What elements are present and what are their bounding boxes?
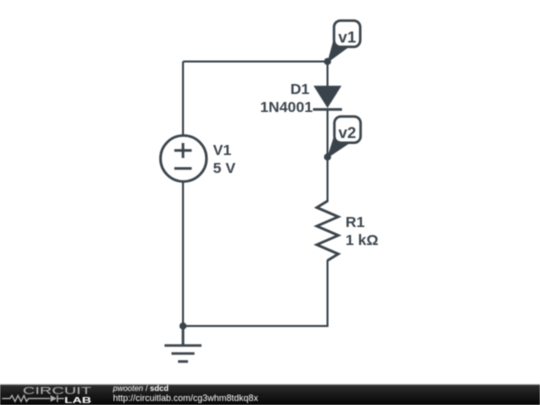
wire: top horizontal from V1 branch to node v1 (183, 61, 328, 63)
wire: right vertical from resistor bottom to ground rail (327, 260, 329, 326)
node dot v1 (324, 58, 331, 65)
node v1 flag box (334, 21, 360, 47)
ground symbol (165, 326, 202, 362)
svg-text:1N4001: 1N4001 (260, 99, 313, 116)
CircuitLab logo diode bar (57, 395, 64, 402)
node dot: junction at ground rail (179, 322, 186, 329)
V1 minus sign (174, 167, 191, 170)
svg-text:1 kΩ: 1 kΩ (346, 232, 379, 249)
voltage source V1 circle (161, 136, 207, 182)
wire: right vertical from node v1 down to diode anode (327, 62, 329, 88)
node v2 flag box (334, 117, 360, 143)
node v2 flag tail (328, 137, 348, 158)
svg-text:v1: v1 (338, 29, 356, 46)
wire: left vertical lower (V1 minus terminal down to ground rail) (182, 182, 184, 326)
V1 plus sign (174, 143, 191, 158)
svg-text:v2: v2 (338, 125, 356, 142)
resistor R1 zigzag (317, 201, 339, 261)
node dot v2 (324, 153, 331, 160)
footer bar top antialias edge (0, 383, 540, 386)
CircuitLab logo schematic line with resistor (2, 396, 50, 402)
svg-text:http://circuitlab.com/cg3whm8t: http://circuitlab.com/cg3whm8tdkq8x (113, 393, 259, 403)
diode D1 triangle (anode, pointing down) (314, 86, 342, 108)
svg-text:R1: R1 (346, 214, 365, 231)
svg-text:LAB: LAB (64, 396, 91, 405)
wire: left vertical upper (top wire down to V1 plus terminal) (182, 62, 184, 136)
wire: right vertical from diode cathode down to resistor R1 (327, 109, 329, 202)
svg-text:pwooten / sdcd: pwooten / sdcd (112, 384, 169, 393)
svg-text:D1: D1 (290, 81, 309, 98)
CircuitLab logo diode symbol (51, 395, 57, 402)
svg-text:5 V: 5 V (213, 160, 236, 177)
diode D1 cathode bar (313, 108, 342, 111)
footer black bar (0, 385, 540, 405)
svg-text:V1: V1 (213, 142, 231, 159)
wire: bottom horizontal ground rail (183, 325, 329, 327)
node v1 flag tail (328, 41, 347, 62)
